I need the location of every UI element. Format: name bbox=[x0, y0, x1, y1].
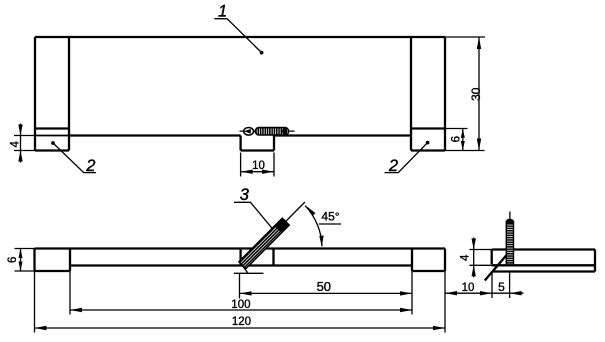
svg-text:120: 120 bbox=[232, 316, 251, 328]
svg-text:10: 10 bbox=[252, 160, 265, 172]
svg-text:5: 5 bbox=[498, 280, 505, 294]
svg-text:3: 3 bbox=[240, 186, 250, 204]
svg-text:10: 10 bbox=[462, 282, 475, 294]
svg-text:30: 30 bbox=[469, 87, 483, 101]
svg-text:6: 6 bbox=[7, 257, 19, 263]
svg-text:4: 4 bbox=[459, 254, 471, 261]
svg-text:45°: 45° bbox=[321, 210, 339, 224]
svg-text:1: 1 bbox=[218, 2, 227, 20]
svg-text:6: 6 bbox=[451, 136, 463, 142]
svg-text:50: 50 bbox=[317, 279, 331, 294]
svg-text:4: 4 bbox=[9, 141, 21, 148]
svg-text:100: 100 bbox=[231, 299, 250, 311]
